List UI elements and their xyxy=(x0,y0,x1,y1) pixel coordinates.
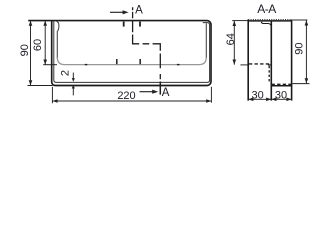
svg-text:A-A: A-A xyxy=(257,2,276,16)
duct outer outline (front view, sharp top-left corner) xyxy=(28,21,211,86)
text 2 xyxy=(60,70,72,76)
svg-text:30: 30 xyxy=(251,89,263,101)
dimension 60 xyxy=(44,21,46,65)
extension line for 60 dim (dark part) xyxy=(43,64,57,66)
duct cavity inner surface bottom (gray) xyxy=(57,57,206,64)
dimension 2 (wall thickness) xyxy=(72,73,74,79)
dimension 64 xyxy=(233,21,235,65)
dimension 90 right xyxy=(305,20,307,83)
hidden tick above cavity bottom (right) xyxy=(139,59,141,64)
step ledge xyxy=(268,64,272,66)
hidden bottom right (dashed) xyxy=(272,83,292,85)
section arrow bottom xyxy=(140,91,153,93)
section cutting line A-A vertical upper run xyxy=(133,7,161,79)
hidden bottom of left passage (dashed) xyxy=(249,63,271,65)
dimension 30 30 line xyxy=(248,98,291,100)
hidden tick above cavity bottom (left) xyxy=(116,59,118,64)
svg-text:60: 60 xyxy=(32,39,44,51)
svg-text:A: A xyxy=(162,87,170,99)
section cutting line corner and horizontal jog xyxy=(133,35,150,44)
hidden dash on cavity bottom line (left) xyxy=(85,64,88,66)
svg-text:220: 220 xyxy=(117,90,135,102)
svg-text:2: 2 xyxy=(60,70,72,76)
hidden edge stub below top edge (right) xyxy=(139,22,141,27)
duct inner wall outline xyxy=(54,21,210,82)
hidden step vertical (dashed) xyxy=(268,66,270,83)
section top rim (fine dashed) xyxy=(248,19,291,21)
socket lip in section xyxy=(261,22,271,27)
text 90 left xyxy=(19,44,31,56)
text 64 xyxy=(225,33,237,45)
section middle vertical edge xyxy=(270,21,272,101)
extension line 64 top xyxy=(232,20,247,22)
section arrow top xyxy=(110,11,123,13)
section left edge xyxy=(247,20,249,101)
section top edge xyxy=(248,20,291,22)
section cutting line vertical lower run xyxy=(159,54,161,80)
hidden dash on cavity bottom line (right) xyxy=(177,64,180,66)
hidden edge stub below top edge (left) xyxy=(123,22,125,27)
extension line 90 bottom right xyxy=(292,83,309,85)
svg-text:90: 90 xyxy=(294,42,306,54)
dimension 220 xyxy=(52,100,211,102)
dimension 90 left xyxy=(30,21,32,86)
svg-text:90: 90 xyxy=(19,44,31,56)
extension line 90 top right xyxy=(292,19,307,21)
section bottom right edge xyxy=(271,85,291,87)
section right edge xyxy=(291,20,293,101)
duct cavity inner surface left lip and vertical xyxy=(56,21,59,58)
text 60 xyxy=(32,39,44,51)
svg-text:A: A xyxy=(135,4,143,16)
text 90 right xyxy=(294,42,306,54)
svg-text:64: 64 xyxy=(225,33,237,45)
extension line 64 bottom xyxy=(240,64,247,66)
duct bottom edge extension line (left) xyxy=(28,85,53,87)
extension line 220 left xyxy=(51,87,53,104)
duct cavity inner surface right vertical xyxy=(205,23,207,58)
section cutting line bottom dash (thick) xyxy=(159,82,161,95)
svg-text:30: 30 xyxy=(275,89,287,101)
extension line 220 right xyxy=(210,87,212,103)
